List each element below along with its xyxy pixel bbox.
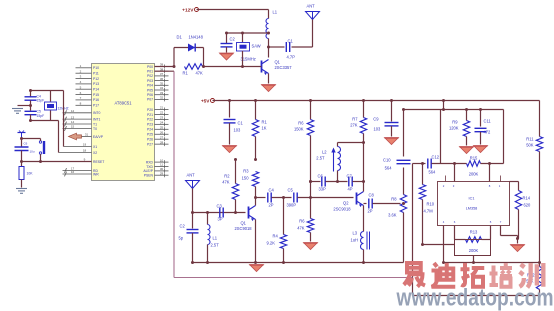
svg-text:35: 35	[160, 82, 164, 86]
svg-text:P13: P13	[93, 82, 99, 86]
svg-text:C1: C1	[288, 39, 294, 44]
svg-text:Q1: Q1	[275, 60, 281, 65]
svg-text:Q1: Q1	[241, 221, 247, 226]
svg-text:29: 29	[160, 171, 164, 175]
svg-text:4.7M: 4.7M	[424, 209, 434, 214]
svg-text:C4: C4	[269, 188, 275, 193]
svg-text:P00: P00	[147, 65, 153, 69]
svg-text:150: 150	[242, 176, 250, 181]
svg-text:3P: 3P	[218, 217, 223, 222]
svg-text:R10: R10	[427, 202, 435, 207]
svg-text:C5: C5	[37, 110, 41, 114]
svg-text:C6: C6	[24, 142, 28, 146]
svg-text:120K: 120K	[449, 126, 459, 131]
svg-text:P24: P24	[147, 128, 153, 132]
svg-text:R3: R3	[243, 169, 249, 174]
svg-text:P10: P10	[93, 66, 99, 70]
svg-text:TXD: TXD	[146, 165, 153, 169]
svg-text:SAW: SAW	[252, 44, 261, 49]
svg-text:18: 18	[83, 148, 87, 152]
svg-text:L1: L1	[273, 10, 278, 15]
svg-text:P25: P25	[147, 133, 153, 137]
svg-text:33: 33	[160, 91, 164, 95]
svg-text:L3: L3	[353, 231, 358, 236]
svg-text:EA/VP: EA/VP	[93, 135, 104, 139]
svg-text:C10: C10	[383, 158, 391, 163]
svg-text:C3: C3	[217, 204, 223, 209]
svg-text:4P: 4P	[348, 187, 353, 192]
svg-text:R7: R7	[352, 117, 358, 122]
svg-text:3.6K: 3.6K	[388, 213, 397, 218]
svg-text:R15: R15	[470, 156, 478, 161]
svg-text:103: 103	[234, 128, 242, 133]
svg-text:27: 27	[160, 135, 164, 139]
svg-text:5p: 5p	[179, 236, 184, 241]
svg-text:X1: X1	[93, 145, 97, 149]
svg-text:9.2K: 9.2K	[267, 241, 276, 246]
svg-text:32: 32	[160, 96, 164, 100]
svg-text:P03: P03	[147, 79, 153, 83]
svg-text:P26: P26	[147, 138, 153, 142]
svg-text:150K: 150K	[294, 127, 304, 132]
svg-text:1K: 1K	[262, 126, 267, 131]
svg-text:RXD: RXD	[146, 160, 154, 164]
svg-text:P02: P02	[147, 74, 153, 78]
svg-text:P05: P05	[147, 88, 153, 92]
svg-text:390P: 390P	[287, 203, 297, 208]
svg-text:R13: R13	[470, 230, 478, 235]
svg-text:T0: T0	[93, 127, 97, 131]
svg-text:P12: P12	[93, 77, 99, 81]
svg-text:P06: P06	[147, 93, 153, 97]
svg-text:36: 36	[160, 77, 164, 81]
svg-text:1uH: 1uH	[351, 238, 359, 243]
svg-text:R11: R11	[526, 137, 534, 142]
svg-text:22: 22	[160, 111, 164, 115]
svg-text:AT89C51: AT89C51	[115, 101, 133, 106]
svg-text:WR: WR	[93, 172, 99, 176]
svg-text:19: 19	[83, 142, 87, 146]
svg-text:34: 34	[160, 86, 164, 90]
svg-text:P11: P11	[93, 72, 99, 76]
svg-text:24: 24	[160, 121, 164, 125]
svg-text:15: 15	[71, 125, 75, 129]
svg-text:INT0: INT0	[93, 111, 100, 115]
svg-text:31: 31	[85, 132, 89, 136]
svg-text:P17: P17	[93, 104, 99, 108]
svg-text:10: 10	[160, 158, 164, 162]
svg-text:472: 472	[484, 130, 492, 135]
svg-text:ANT: ANT	[187, 173, 196, 178]
svg-text:37: 37	[160, 72, 164, 76]
svg-text:12: 12	[71, 109, 75, 113]
svg-text:47K: 47K	[196, 71, 204, 76]
svg-text:P23: P23	[147, 123, 153, 127]
svg-text:2SC9018: 2SC9018	[235, 226, 253, 231]
svg-text:C8: C8	[369, 193, 375, 198]
svg-text:R8: R8	[391, 197, 397, 202]
svg-text:1N4148: 1N4148	[189, 35, 204, 40]
svg-text:2SC9018: 2SC9018	[333, 207, 351, 212]
svg-text:200K: 200K	[469, 172, 479, 177]
svg-text:P16: P16	[93, 98, 99, 102]
svg-text:P07: P07	[147, 98, 153, 102]
svg-text:26: 26	[160, 130, 164, 134]
svg-text:PSEN: PSEN	[144, 174, 154, 178]
svg-text:16: 16	[71, 170, 75, 174]
svg-text:C6: C6	[318, 174, 324, 179]
svg-text:23: 23	[160, 116, 164, 120]
svg-text:13: 13	[71, 115, 75, 119]
svg-text:P14: P14	[93, 88, 99, 92]
svg-text:T1: T1	[93, 122, 97, 126]
svg-text:P22: P22	[147, 118, 153, 122]
svg-text:33P: 33P	[319, 187, 327, 192]
svg-text:IC1: IC1	[469, 197, 475, 201]
svg-text:R1: R1	[262, 120, 268, 125]
svg-text:10K: 10K	[27, 172, 34, 176]
svg-text:D1: D1	[177, 35, 183, 40]
svg-text:P21: P21	[147, 113, 153, 117]
svg-text:LM358: LM358	[466, 207, 478, 211]
svg-text:R9: R9	[452, 120, 458, 125]
svg-text:R1: R1	[183, 71, 189, 76]
svg-text:200K: 200K	[469, 248, 479, 253]
svg-text:2.5T: 2.5T	[316, 156, 325, 161]
svg-text:C9: C9	[373, 117, 379, 122]
svg-text:RESET: RESET	[93, 160, 104, 164]
svg-text:11: 11	[160, 163, 163, 167]
svg-text:X2: X2	[93, 151, 97, 155]
svg-text:P15: P15	[93, 93, 99, 97]
svg-text:2P: 2P	[368, 209, 373, 214]
svg-text:C7: C7	[347, 174, 353, 179]
svg-text:C5: C5	[288, 188, 294, 193]
svg-text:C2: C2	[180, 224, 186, 229]
svg-text:2SC3357: 2SC3357	[275, 65, 293, 70]
svg-text:R6: R6	[299, 219, 305, 224]
svg-text:P01: P01	[147, 70, 153, 74]
svg-text:R2: R2	[224, 174, 230, 179]
svg-text:ANT: ANT	[307, 4, 316, 9]
svg-text:P20: P20	[147, 108, 153, 112]
svg-text:C2: C2	[230, 37, 236, 42]
svg-text:R4: R4	[273, 234, 279, 239]
svg-text:C11: C11	[484, 119, 492, 124]
svg-text:P04: P04	[147, 84, 153, 88]
svg-text:10u: 10u	[30, 150, 35, 154]
svg-text:Q2: Q2	[343, 201, 349, 206]
svg-text:15pF: 15pF	[37, 114, 45, 118]
svg-text:www.edatop.com: www.edatop.com	[396, 285, 554, 311]
svg-text:27K: 27K	[350, 123, 358, 128]
svg-text:47K: 47K	[297, 226, 305, 231]
svg-text:15pF: 15pF	[37, 99, 45, 103]
svg-text:25: 25	[160, 126, 164, 130]
svg-text:+5V: +5V	[201, 98, 210, 104]
svg-text:C1: C1	[238, 121, 244, 126]
svg-text:4.7P: 4.7P	[287, 55, 296, 60]
svg-text:28: 28	[160, 140, 164, 144]
svg-text:103: 103	[374, 127, 382, 132]
svg-text:620: 620	[524, 203, 532, 208]
svg-text:R14: R14	[523, 196, 531, 201]
svg-text:R6: R6	[298, 121, 304, 126]
svg-text:21: 21	[160, 106, 164, 110]
svg-text:C12: C12	[432, 155, 440, 160]
svg-text:+12V: +12V	[182, 7, 194, 13]
svg-text:L2: L2	[322, 150, 327, 155]
svg-text:14: 14	[71, 120, 75, 124]
svg-text:564: 564	[429, 170, 437, 175]
svg-text:47K: 47K	[222, 180, 230, 185]
svg-text:P27: P27	[147, 142, 153, 146]
svg-text:2P: 2P	[269, 203, 274, 208]
svg-text:564: 564	[385, 166, 393, 171]
svg-text:INT1: INT1	[93, 117, 100, 121]
svg-text:L1: L1	[213, 236, 218, 241]
svg-text:2.5T: 2.5T	[211, 243, 220, 248]
svg-text:50K: 50K	[526, 143, 534, 148]
